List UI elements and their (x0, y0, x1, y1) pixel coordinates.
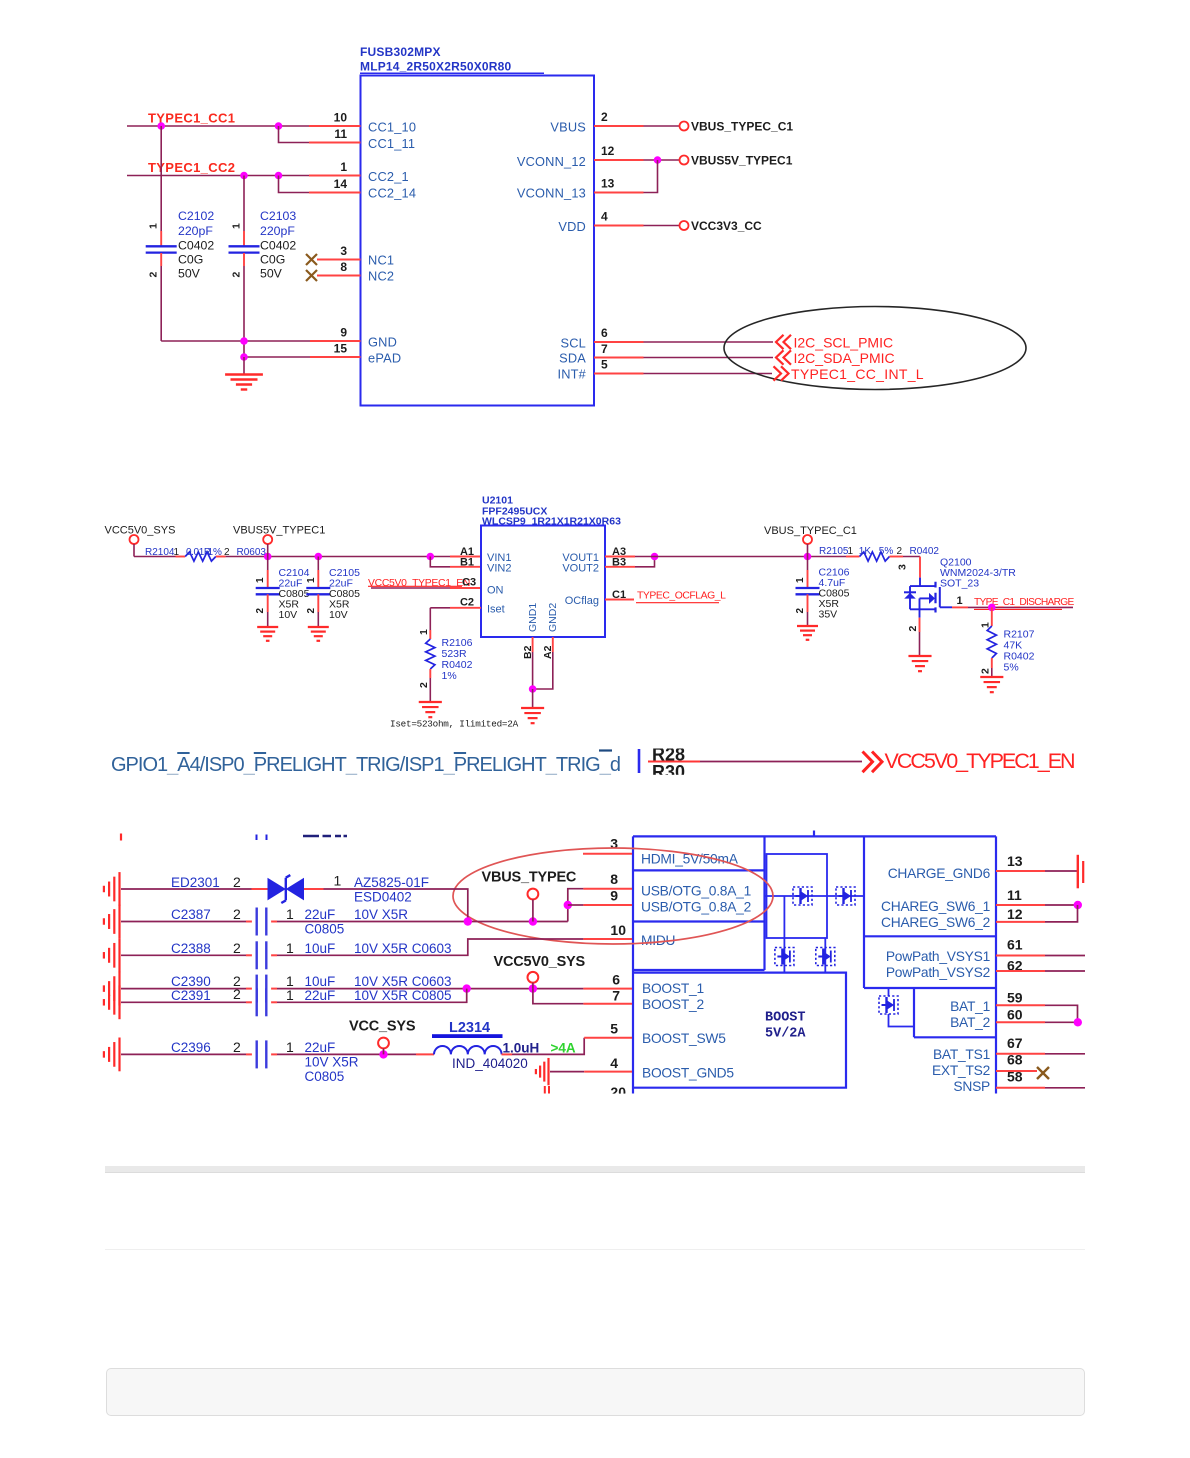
wire pin 4 BOOST_GND5 (550, 1071, 584, 1073)
pin 60 BAT_2 wire (996, 1021, 1045, 1023)
junction ePAD net (240, 353, 248, 361)
ground BOOST_GND5 (547, 1058, 549, 1085)
svg-text:1%: 1% (442, 670, 457, 682)
left section partition (763, 836, 765, 970)
wire SCL (644, 341, 774, 343)
svg-text:GND1: GND1 (527, 603, 539, 632)
svg-text:10V: 10V (279, 609, 298, 621)
svg-text:1: 1 (795, 577, 806, 583)
port TYPEC1_CC_INT_L (774, 366, 789, 380)
svg-text:1: 1 (148, 223, 160, 229)
svg-text:2: 2 (418, 682, 430, 688)
wire C2396 to VCC_SYS (277, 1053, 416, 1055)
svg-text:2: 2 (233, 874, 241, 890)
svg-text:22uF: 22uF (305, 988, 336, 1003)
svg-text:BAT_TS1: BAT_TS1 (933, 1047, 990, 1062)
wire VCONN_13 up to VCONN_12 (644, 160, 658, 193)
wire C2391 joins C2390 (277, 989, 467, 1003)
svg-text:11: 11 (334, 127, 347, 141)
svg-text:10V X5R C0603: 10V X5R C0603 (354, 974, 452, 989)
pin 3 NC1 no-connect (306, 254, 317, 265)
svg-text:2: 2 (233, 986, 241, 1002)
IC U2101 body (481, 526, 605, 638)
junction pin 9 branch (564, 901, 572, 909)
svg-text:NC2: NC2 (368, 269, 394, 284)
svg-text:1: 1 (957, 595, 963, 607)
ground CHARGE_GND6 (1077, 855, 1079, 889)
svg-text:7: 7 (601, 342, 608, 356)
internal FET Q-d (816, 948, 835, 966)
TVS diode ED2301 (252, 888, 268, 890)
svg-text:CC1_11: CC1_11 (368, 136, 415, 151)
svg-text:10uF: 10uF (305, 974, 336, 989)
wire SDA (644, 357, 774, 359)
svg-text:MLP14_2R50X2R50X0R80: MLP14_2R50X2R50X0R80 (360, 60, 512, 74)
svg-text:GND2: GND2 (547, 603, 559, 632)
ground C2396 (118, 1038, 120, 1072)
wire VBUS_TYPEC up to pin 8 (568, 889, 584, 922)
section 3 bottom clip mask (95, 1094, 1190, 1112)
gray toolbar bar (105, 1166, 1085, 1173)
svg-text:2: 2 (231, 272, 243, 278)
svg-text:2: 2 (897, 546, 903, 557)
wire TYPEC1_CC1 (127, 125, 309, 127)
capacitor C2102 (160, 126, 162, 231)
BAT box (914, 988, 996, 1037)
port I2C_SCL_PMIC (776, 335, 791, 349)
junction GND net (240, 337, 248, 345)
svg-text:5: 5 (601, 358, 608, 372)
svg-text:SNSP: SNSP (953, 1079, 990, 1094)
svg-text:10V X5R: 10V X5R (305, 1055, 359, 1070)
svg-text:OCflag: OCflag (565, 595, 599, 607)
svg-text:VBUS_TYPEC: VBUS_TYPEC (482, 870, 577, 886)
junction at C2106 (804, 553, 812, 561)
ground below C2106 (797, 625, 818, 627)
wire C2102 bottom to GND pin (161, 340, 310, 342)
ground below Q2100 (908, 655, 931, 657)
junction BAT (1074, 1018, 1082, 1026)
svg-text:2: 2 (233, 940, 241, 956)
net label VBUS5V_TYPEC1 (680, 156, 689, 165)
wire ED2301 row (121, 888, 252, 890)
svg-text:5%: 5% (1004, 662, 1019, 674)
svg-text:VCC_SYS: VCC_SYS (349, 1019, 416, 1035)
junction GND1/GND2 (529, 685, 537, 693)
svg-text:2: 2 (306, 608, 317, 614)
wire ED2301 to VBUS_TYPEC (324, 889, 468, 922)
svg-text:VIN2: VIN2 (487, 563, 511, 575)
ground below R2106 (419, 701, 442, 703)
svg-text:GND: GND (368, 335, 397, 350)
wire R2105 to Q2100 drain (903, 556, 920, 558)
svg-text:13: 13 (601, 177, 615, 191)
svg-text:FUSB302MPX: FUSB302MPX (360, 45, 441, 59)
svg-text:NC1: NC1 (368, 253, 394, 268)
ground C2390 (118, 972, 120, 1006)
svg-text:2: 2 (255, 608, 266, 614)
resistor R2105 1K (846, 556, 860, 558)
svg-text:14: 14 (334, 177, 348, 191)
svg-text:2: 2 (148, 272, 160, 278)
svg-text:1: 1 (418, 629, 430, 635)
pin 58 SNSP wire (996, 1087, 1045, 1089)
ground below C2104 (257, 626, 278, 628)
svg-text:C0805: C0805 (305, 1069, 345, 1084)
junction SW6 (1074, 901, 1082, 909)
svg-text:TYPEC1_CC_INT_L: TYPEC1_CC_INT_L (791, 366, 924, 382)
junction VCC_SYS (379, 1050, 387, 1058)
svg-text:BOOST_1: BOOST_1 (642, 981, 704, 996)
pins B2 A2 GND wires (532, 637, 534, 652)
clipped resistors R28 R30 (638, 749, 641, 773)
svg-text:BAT_2: BAT_2 (950, 1015, 990, 1030)
capacitor C2388 (121, 954, 246, 956)
svg-text:VCC5V0_SYS: VCC5V0_SYS (494, 954, 586, 970)
wire branch to pin 14 (279, 176, 310, 193)
pin 3 stub HDMI (583, 853, 632, 855)
svg-text:CHARGE_GND6: CHARGE_GND6 (888, 866, 991, 881)
svg-text:1.0uH: 1.0uH (503, 1041, 540, 1056)
junction at C2105 (315, 553, 323, 561)
capacitor C2104 (267, 557, 269, 571)
svg-text:12: 12 (601, 144, 615, 158)
pin 1 CC2_1 (309, 175, 361, 177)
wire branch to pin 11 (279, 126, 310, 143)
svg-text:BOOST_GND5: BOOST_GND5 (642, 1066, 734, 1081)
capacitor C2103 (243, 176, 245, 232)
svg-text:INT#: INT# (557, 367, 586, 382)
svg-text:2: 2 (601, 110, 608, 124)
HDMI box (633, 869, 765, 871)
svg-text:6: 6 (612, 972, 620, 988)
svg-text:BOOST_SW5: BOOST_SW5 (642, 1031, 726, 1046)
svg-text:BOOST_2: BOOST_2 (642, 997, 704, 1012)
ground below R2107 (980, 676, 1003, 678)
junction at R2107 (988, 604, 996, 612)
pin 1 gate wire TYPE_C1_DISCHARGE (952, 606, 968, 608)
bottom panel (106, 1368, 1085, 1416)
transistor Q2100 NMOS symbol (919, 578, 921, 586)
internal FET Q-b (836, 887, 855, 905)
svg-text:1: 1 (286, 1039, 294, 1055)
overbar on trailing underscore (599, 749, 612, 751)
svg-text:C0402: C0402 (178, 238, 214, 252)
svg-text:1: 1 (286, 940, 294, 956)
svg-text:1: 1 (286, 987, 294, 1003)
svg-text:35V: 35V (819, 609, 838, 621)
USB box (633, 920, 765, 922)
svg-text:2: 2 (795, 608, 806, 614)
svg-text:5%: 5% (879, 546, 894, 557)
BOOST box (633, 973, 846, 1088)
junction TYPEC1_CC2 branch (275, 172, 283, 180)
svg-text:VCC5V0_SYS: VCC5V0_SYS (105, 525, 176, 537)
svg-text:6: 6 (601, 326, 608, 340)
wire L2314 to pin 5 (502, 1053, 513, 1055)
PowPath box bottom (864, 987, 996, 989)
svg-text:9: 9 (610, 888, 618, 904)
svg-text:1: 1 (848, 546, 854, 557)
svg-text:B1: B1 (460, 557, 474, 569)
pin 8 NC2 no-connect (306, 270, 317, 281)
svg-text:1: 1 (334, 873, 342, 889)
junction VIN2 branch (427, 553, 435, 561)
svg-text:GPIO1_A4/ISP0_PRELIGHT_TRIG/IS: GPIO1_A4/ISP0_PRELIGHT_TRIG/ISP1_PRELIGH… (111, 754, 620, 776)
MIDU box bottom (633, 969, 765, 971)
wire VBUS to VBUS_TYPEC_C1 (644, 125, 680, 127)
ground C2391 (118, 985, 120, 1019)
pin 15 ePAD (310, 356, 361, 358)
wire rail to VIN (226, 556, 450, 558)
pin 9 GND (310, 340, 361, 342)
wire VCC5V0_SYS rail (134, 556, 176, 558)
svg-text:VDD: VDD (558, 219, 586, 234)
wire VOUT2 up to VOUT1 (635, 557, 655, 567)
wire pin 9 branch (568, 904, 584, 906)
svg-text:5V/2A: 5V/2A (765, 1027, 806, 1042)
svg-text:C2388: C2388 (171, 941, 211, 956)
capacitor C2106 (807, 557, 809, 571)
pin 14 CC2_14 (309, 192, 361, 194)
svg-text:Iset=523ohm, Ilimited=2A: Iset=523ohm, Ilimited=2A (390, 719, 519, 730)
svg-text:C2102: C2102 (178, 209, 214, 223)
svg-text:R2105: R2105 (819, 546, 849, 557)
ground C2387 (118, 905, 120, 939)
svg-text:3: 3 (897, 564, 909, 570)
CHARGE partition (863, 836, 865, 988)
svg-text:12: 12 (1007, 906, 1023, 922)
capacitor C2391 (121, 1001, 246, 1003)
svg-text:220pF: 220pF (178, 224, 213, 238)
svg-text:VOUT2: VOUT2 (562, 563, 599, 575)
junction TYPEC1_CC1 at C2102 (157, 122, 165, 130)
svg-text:4: 4 (601, 210, 608, 224)
svg-text:VCONN_13: VCONN_13 (517, 186, 586, 201)
svg-text:C2391: C2391 (171, 988, 211, 1003)
svg-text:7: 7 (612, 988, 620, 1004)
wire VCONN_12 to VBUS5V_TYPEC1 (644, 159, 680, 161)
svg-text:BOOST: BOOST (765, 1011, 806, 1026)
svg-text:R0402: R0402 (910, 546, 940, 557)
svg-text:USB/OTG_0.8A_2: USB/OTG_0.8A_2 (641, 900, 751, 915)
svg-text:VBUS: VBUS (550, 120, 586, 135)
junction TYPEC1_CC1 branch (275, 122, 283, 130)
svg-text:CC1_10: CC1_10 (368, 120, 416, 135)
svg-text:8: 8 (610, 871, 618, 887)
svg-text:10: 10 (610, 922, 626, 938)
svg-text:C2: C2 (460, 597, 474, 609)
pin 10 CC1_10 (309, 125, 361, 127)
svg-text:10: 10 (334, 111, 348, 125)
pin 59 BAT_1 wire (996, 1004, 1045, 1006)
wire VDD to VCC3V3_CC (644, 225, 680, 227)
svg-text:BAT_1: BAT_1 (950, 999, 990, 1014)
net label VBUS_TYPEC_C1 (680, 122, 689, 131)
capacitor C2390 (121, 988, 246, 990)
pin 68 EXT_TS2 no-connect (996, 1070, 1037, 1072)
svg-text:220pF: 220pF (260, 224, 295, 238)
svg-text:10V X5R C0603: 10V X5R C0603 (354, 941, 452, 956)
svg-text:4: 4 (610, 1055, 618, 1071)
svg-text:C0G: C0G (260, 252, 285, 266)
svg-text:VCC3V3_CC: VCC3V3_CC (691, 219, 762, 233)
svg-text:59: 59 (1007, 990, 1023, 1006)
svg-text:10V: 10V (329, 609, 348, 621)
capacitor C2387 (121, 921, 246, 923)
svg-text:EXT_TS2: EXT_TS2 (932, 1063, 990, 1078)
svg-text:1: 1 (231, 223, 243, 229)
svg-text:22uF: 22uF (305, 907, 336, 922)
svg-text:ESD0402: ESD0402 (354, 890, 412, 905)
junction ED2301 joins (464, 917, 472, 925)
svg-text:11: 11 (1007, 887, 1022, 903)
internal switch rail (765, 895, 865, 897)
svg-text:ePAD: ePAD (368, 351, 401, 366)
svg-text:TYPEC_OCFLAG_L: TYPEC_OCFLAG_L (637, 591, 726, 602)
internal FET Q-e (879, 996, 898, 1014)
svg-text:2: 2 (233, 1039, 241, 1055)
svg-text:C3: C3 (462, 577, 476, 589)
svg-text:R2104: R2104 (145, 547, 175, 558)
svg-text:I2C_SDA_PMIC: I2C_SDA_PMIC (794, 350, 895, 366)
svg-text:50V: 50V (260, 266, 283, 280)
svg-text:SCL: SCL (561, 336, 587, 351)
svg-text:2: 2 (980, 668, 992, 674)
inductor L2314 (416, 1053, 434, 1055)
svg-text:10uF: 10uF (305, 941, 336, 956)
wire C2388 to MIDU pin 10 (277, 939, 583, 955)
svg-text:1: 1 (286, 906, 294, 922)
pin A3 VOUT1 stub (605, 556, 635, 558)
pin B3 VOUT2 stub (605, 566, 635, 568)
capacitor C2396 (121, 1053, 246, 1055)
ground ED2301 (118, 872, 120, 906)
svg-text:8: 8 (340, 260, 347, 274)
svg-text:C2390: C2390 (171, 974, 211, 989)
svg-text:CHAREG_SW6_1: CHAREG_SW6_1 (881, 899, 990, 914)
svg-text:61: 61 (1007, 937, 1023, 953)
pin 11 CHAREG_SW6_1 wire (996, 904, 1045, 906)
wire INT# (644, 373, 773, 375)
pin C3 stub / ON wire red part done above; OCflag pin (605, 599, 634, 601)
wire to VCC5V0_TYPEC1_EN port (648, 761, 700, 763)
svg-text:67: 67 (1007, 1035, 1023, 1051)
internal vertical 1 (783, 896, 785, 973)
svg-text:VCC5V0_TYPEC1_EN: VCC5V0_TYPEC1_EN (885, 749, 1075, 773)
svg-text:1K: 1K (859, 546, 872, 557)
svg-text:L2314: L2314 (449, 1020, 490, 1036)
highlight ellipse around I2C nets (724, 307, 1026, 390)
svg-text:C2396: C2396 (171, 1040, 211, 1055)
ground below C2105 (308, 626, 329, 628)
svg-text:1: 1 (306, 577, 317, 583)
svg-text:SDA: SDA (559, 351, 586, 366)
wire VCC5V0_SYS row to pin 6 (277, 988, 583, 990)
pin 61 PowPath_VSYS1 wire (996, 955, 1045, 957)
port I2C_SDA_PMIC (776, 350, 791, 364)
resistor R2106 523R (429, 608, 431, 630)
svg-text:SOT_23: SOT_23 (940, 578, 979, 590)
Q2100 source to ground (919, 598, 921, 617)
svg-text:C0402: C0402 (260, 238, 296, 252)
resistor R2107 47K (991, 607, 993, 626)
capacitor C2105 (317, 557, 319, 571)
wire VIN2 branch (430, 557, 450, 567)
svg-text:3: 3 (610, 836, 618, 852)
ground below ePAD (243, 357, 245, 374)
junction at VBUS5V_TYPEC1 (264, 553, 272, 561)
wire TYPEC1_CC2 (127, 175, 309, 177)
internal FET Q-a (793, 887, 812, 905)
CHARGE box bottom (864, 935, 996, 937)
svg-text:IND_404020: IND_404020 (452, 1056, 528, 1071)
svg-text:>4A: >4A (551, 1041, 576, 1056)
wire pin 7 branch (533, 989, 584, 1004)
divider line (105, 1249, 1085, 1251)
svg-text:5: 5 (610, 1021, 618, 1037)
wire ePAD (244, 356, 310, 358)
svg-text:AZ5825-01F: AZ5825-01F (354, 875, 429, 890)
junction VCC5V0_SYS flag (529, 984, 537, 992)
svg-text:Iset: Iset (487, 604, 505, 616)
svg-text:10V X5R: 10V X5R (354, 907, 408, 922)
svg-text:VBUS5V_TYPEC1: VBUS5V_TYPEC1 (233, 525, 325, 537)
svg-text:PowPath_VSYS2: PowPath_VSYS2 (886, 965, 990, 980)
junction TYPEC1_CC2 at C2103 (240, 172, 248, 180)
svg-text:2: 2 (233, 906, 241, 922)
inner switch rectangle (767, 854, 828, 938)
svg-text:22uF: 22uF (305, 1040, 336, 1055)
pin 62 PowPath_VSYS2 wire (996, 970, 1045, 972)
junction VOUT (651, 553, 659, 561)
pin 12 CHAREG_SW6_2 wire (996, 921, 1045, 923)
svg-text:VBUS5V_TYPEC1: VBUS5V_TYPEC1 (691, 154, 793, 168)
svg-text:VCONN_12: VCONN_12 (517, 154, 586, 169)
svg-text:ON: ON (487, 585, 504, 597)
highlight ellipse VBUS_TYPEC (453, 848, 773, 944)
svg-text:50V: 50V (178, 266, 201, 280)
pin 11 CC1_11 (309, 142, 361, 144)
svg-text:1%: 1% (208, 547, 223, 558)
svg-text:C0G: C0G (178, 252, 203, 266)
svg-text:CC2_14: CC2_14 (368, 186, 416, 201)
svg-text:60: 60 (1007, 1007, 1023, 1023)
svg-text:VBUS_TYPEC_C1: VBUS_TYPEC_C1 (691, 120, 793, 134)
wire ON pin (371, 587, 450, 589)
svg-text:1: 1 (340, 160, 347, 174)
svg-text:3: 3 (340, 244, 347, 258)
svg-text:15: 15 (334, 342, 348, 356)
svg-text:CC2_1: CC2_1 (368, 169, 409, 184)
net label VCC3V3_CC (680, 221, 689, 230)
svg-text:ED2301: ED2301 (171, 875, 220, 890)
junction C2391 joins (463, 984, 471, 992)
junction VBUS_TYPEC flag (529, 917, 537, 925)
IC charger outer borders (633, 836, 996, 1093)
svg-text:CHAREG_SW6_2: CHAREG_SW6_2 (881, 915, 990, 930)
svg-text:1: 1 (174, 547, 180, 558)
IC U1 FUSB302MPX body (361, 76, 595, 406)
ground C2388 (118, 938, 120, 972)
svg-text:I2C_SCL_PMIC: I2C_SCL_PMIC (794, 335, 894, 351)
internal FET Q-c (775, 948, 794, 966)
ground below U2101 (532, 689, 534, 707)
svg-text:PowPath_VSYS1: PowPath_VSYS1 (886, 949, 990, 964)
svg-text:USB/OTG_0.8A_1: USB/OTG_0.8A_1 (641, 884, 751, 899)
svg-text:C2387: C2387 (171, 907, 211, 922)
wire VBUS_TYPEC net (277, 921, 568, 923)
